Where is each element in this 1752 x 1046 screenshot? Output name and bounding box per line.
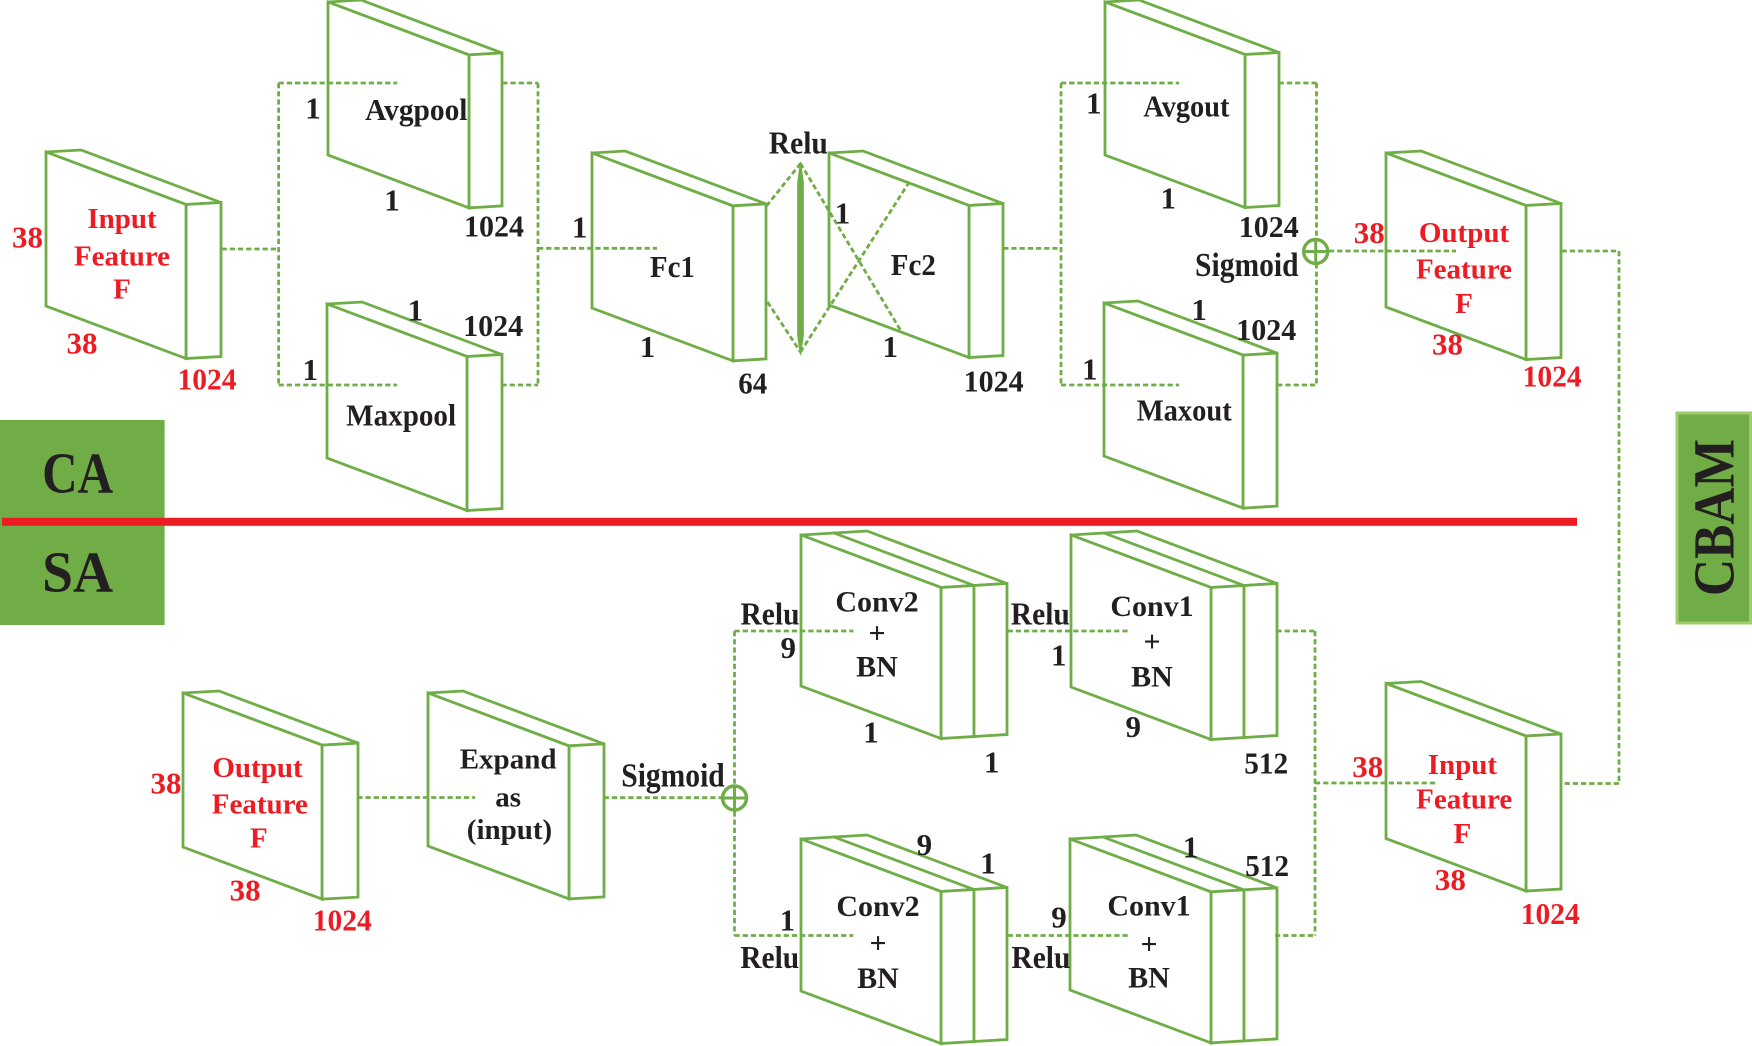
wire left bracket top to Avgpool: [279, 82, 397, 85]
wire Output F to right edge: [1562, 250, 1619, 253]
feature map Conv2+BN (upper path): [801, 531, 1007, 739]
label 9 below upper Conv1: [1126, 709, 1142, 744]
svg-text:+: +: [868, 617, 885, 650]
wire Maxout to sum bracket bottom: [1277, 384, 1316, 387]
svg-text:Feature: Feature: [1416, 784, 1512, 816]
Input Feature F (top) text: [74, 203, 170, 306]
svg-text:1024: 1024: [463, 308, 523, 343]
feature map Output Feature F (bottom): [183, 691, 358, 899]
svg-text:1024: 1024: [178, 361, 237, 396]
SA text: [42, 540, 113, 605]
svg-text:Sigmoid: Sigmoid: [1195, 247, 1299, 284]
label 1 left Avgout: [1086, 86, 1102, 121]
wire Conv1 to right bracket top-row: [1276, 630, 1315, 633]
label 1 below upper Conv2: [863, 714, 879, 749]
svg-text:Feature: Feature: [74, 241, 170, 273]
wire sum to Output Feature F: [1329, 250, 1456, 253]
feature map Conv2+BN (lower path): [801, 835, 1007, 1044]
svg-text:64: 64: [738, 366, 767, 401]
red divider line CA/SA: [2, 518, 1577, 526]
wire out bracket top to Avgout: [1061, 82, 1179, 85]
svg-text:1: 1: [984, 745, 1000, 780]
wire Avgout to sum bracket top: [1279, 82, 1317, 85]
feature map Conv1+BN (lower path): [1070, 835, 1277, 1043]
label 1 top Maxout: [1191, 292, 1207, 327]
wire left bracket vertical (pool): [277, 83, 280, 385]
CBAM box (green): [1677, 413, 1751, 623]
label 9 left lower Conv1: [1051, 899, 1067, 934]
svg-text:CA: CA: [42, 441, 113, 506]
svg-text:512: 512: [1244, 746, 1288, 781]
svg-text:BN: BN: [1128, 962, 1170, 995]
Avgpool text: [365, 92, 468, 127]
wire Maxpool to right bracket bottom: [502, 384, 539, 387]
svg-text:38: 38: [1432, 326, 1463, 361]
svg-text:1: 1: [305, 91, 321, 126]
feature map Conv1+BN (upper path): [1071, 531, 1277, 740]
svg-text:Conv2: Conv2: [835, 586, 918, 619]
svg-text:Relu: Relu: [741, 596, 800, 632]
svg-text:F: F: [250, 823, 268, 855]
svg-text:38: 38: [1435, 862, 1466, 897]
svg-text:1024: 1024: [1521, 896, 1580, 931]
svg-text:1: 1: [1086, 86, 1102, 121]
svg-text:1: 1: [302, 352, 318, 387]
Input Feature F (bottom) text: [1416, 749, 1512, 850]
svg-text:1: 1: [835, 195, 851, 230]
wire Conv2 to Conv1 top-row: [1008, 630, 1130, 633]
svg-text:Avgpool: Avgpool: [365, 92, 468, 127]
wire Expand to sigmoid sum: [604, 796, 721, 799]
svg-text:Expand: Expand: [460, 744, 557, 776]
Conv1+BN lower text: [1107, 890, 1190, 995]
svg-text:1: 1: [640, 329, 656, 364]
svg-text:+: +: [1140, 928, 1157, 961]
label 1 left Maxpool: [302, 352, 318, 387]
svg-text:1024: 1024: [313, 902, 372, 937]
svg-text:9: 9: [781, 630, 797, 665]
SA label box (green): [0, 522, 165, 625]
label 1 left Avgpool: [305, 91, 321, 126]
label 1024 Fc2: [964, 364, 1024, 399]
label 38 below Input F: [67, 326, 98, 361]
svg-text:512: 512: [1245, 848, 1289, 883]
svg-text:Input: Input: [1428, 749, 1498, 781]
wire bottom Output F to Expand: [357, 796, 475, 799]
feature map Maxpool: [327, 302, 502, 511]
svg-text:9: 9: [1051, 899, 1067, 934]
feature map Avgout: [1105, 0, 1279, 208]
wire Conv1 to bracket bottom-row: [1275, 934, 1315, 937]
svg-text:CBAM: CBAM: [1682, 439, 1747, 596]
label 1 below Avgout: [1161, 180, 1177, 215]
label 1 below Fc1: [640, 329, 656, 364]
svg-text:Relu: Relu: [1011, 939, 1070, 975]
svg-text:as: as: [495, 781, 521, 813]
svg-text:BN: BN: [856, 651, 898, 684]
label 1024 Maxpool: [463, 308, 523, 343]
svg-text:1: 1: [572, 210, 588, 245]
Output Feature F (bottom) text: [212, 752, 308, 855]
svg-text:1: 1: [883, 329, 899, 364]
label 1 before Fc1: [572, 210, 588, 245]
label 38 before bottom Input F: [1352, 749, 1383, 784]
svg-text:Input: Input: [87, 203, 157, 235]
wire fan Fc1 to Relu bottom: [768, 302, 801, 352]
Avgout text: [1143, 89, 1230, 124]
svg-text:38: 38: [12, 220, 43, 255]
Fc1 text: [650, 249, 695, 284]
label 512 lower Conv1: [1245, 848, 1289, 883]
wire Fc2 to out bracket: [1003, 247, 1061, 250]
label 1024 Avgout: [1239, 209, 1299, 244]
feature map Expand as (input): [428, 691, 604, 899]
wire into bottom Input F: [1562, 782, 1619, 785]
wire Avgpool to right bracket top: [502, 82, 538, 85]
Maxout text: [1137, 393, 1233, 428]
wire fan Relu top to Fc2 bottom: [801, 164, 902, 332]
svg-text:(input): (input): [467, 814, 552, 846]
feature map Fc1: [592, 151, 766, 361]
wire bottom bracket vertical: [733, 631, 736, 936]
svg-text:SA: SA: [42, 540, 113, 605]
svg-text:BN: BN: [1131, 661, 1173, 694]
svg-text:Feature: Feature: [1416, 254, 1512, 286]
wire right bracket vertical (pool): [537, 83, 540, 385]
wire sum bracket vertical: [1315, 83, 1318, 385]
svg-text:38: 38: [230, 872, 261, 907]
label 1 upper Conv1: [1051, 638, 1067, 673]
sum node channel attention: [1304, 240, 1328, 264]
svg-text:1: 1: [384, 183, 400, 218]
wire Conv2 to Conv1 bottom-row: [1008, 934, 1128, 937]
label 1024 Maxout: [1236, 312, 1296, 347]
CBAM text: [1682, 439, 1747, 596]
label 1 top Fc2: [835, 195, 851, 230]
label 1 top Maxpool: [408, 292, 424, 327]
svg-text:38: 38: [1354, 215, 1385, 250]
label 1024 bottom Output F: [313, 902, 372, 937]
Relu text upper-left: [741, 596, 800, 632]
svg-text:9: 9: [917, 827, 933, 862]
feature map Input Feature F (top): [46, 150, 221, 359]
svg-text:Feature: Feature: [212, 789, 308, 821]
wire long vertical CBAM feedback: [1618, 251, 1621, 784]
feature map Fc2: [829, 151, 1003, 358]
label 1 top lower Conv1: [1183, 830, 1199, 865]
svg-text:38: 38: [1352, 749, 1383, 784]
svg-text:1: 1: [1191, 292, 1207, 327]
wire fan Relu bottom to Fc2 top: [801, 184, 909, 352]
feature map Output Feature F (top): [1386, 151, 1561, 360]
label 1024 Input F: [178, 361, 237, 396]
label 38 below bottom Input F: [1435, 862, 1466, 897]
wire input F to left bracket: [222, 248, 279, 251]
svg-text:+: +: [869, 927, 886, 960]
label 1 below upper Conv2 side: [984, 745, 1000, 780]
label 38 below Output F: [1432, 326, 1463, 361]
feature map Avgpool: [328, 0, 502, 208]
CA label box (green): [0, 420, 165, 522]
svg-text:38: 38: [67, 326, 98, 361]
svg-text:Output: Output: [1419, 217, 1510, 249]
label 9 top lower Conv2: [917, 827, 933, 862]
svg-text:1024: 1024: [464, 209, 524, 244]
svg-text:Relu: Relu: [1011, 596, 1070, 632]
svg-text:1: 1: [1082, 352, 1098, 387]
label 38 before Output F: [1354, 215, 1385, 250]
label 1024 Output F: [1523, 358, 1582, 393]
Fc2 text: [891, 247, 936, 282]
Conv1+BN upper text: [1110, 590, 1193, 694]
svg-text:Fc1: Fc1: [650, 249, 695, 284]
label 1 left Maxout: [1082, 352, 1098, 387]
label 9 upper Conv2: [781, 630, 797, 665]
label 512 upper Conv1: [1244, 746, 1288, 781]
svg-text:1: 1: [1161, 180, 1177, 215]
svg-text:Relu: Relu: [740, 939, 799, 975]
svg-text:F: F: [1455, 288, 1473, 320]
wire bottom right bracket vertical: [1314, 631, 1317, 936]
svg-text:BN: BN: [857, 962, 899, 995]
svg-text:Sigmoid: Sigmoid: [621, 758, 725, 795]
label 1024 Avgpool: [464, 209, 524, 244]
svg-text:1: 1: [408, 292, 424, 327]
svg-text:Conv2: Conv2: [836, 890, 919, 923]
wire out bracket left vertical: [1060, 83, 1063, 385]
label 1 below Avgpool: [384, 183, 400, 218]
wire left bracket bottom to Maxpool: [279, 384, 397, 387]
Relu bottleneck bar: [798, 162, 804, 355]
svg-text:1024: 1024: [1239, 209, 1299, 244]
Sigmoid text (SA): [621, 758, 725, 795]
Relu text lower-mid: [1011, 939, 1070, 975]
Relu text upper-mid: [1011, 596, 1070, 632]
Conv2+BN upper text: [835, 586, 918, 684]
svg-text:F: F: [1454, 818, 1472, 850]
svg-text:+: +: [1143, 626, 1160, 659]
Expand as input text: [460, 744, 557, 847]
svg-text:Fc2: Fc2: [891, 247, 936, 282]
feature map Input Feature F (bottom): [1386, 682, 1561, 892]
svg-text:Conv1: Conv1: [1107, 890, 1190, 923]
wire bracket to Conv2 bottom-row: [735, 934, 854, 937]
svg-text:Maxpool: Maxpool: [346, 398, 456, 433]
wire bracket to Fc1: [538, 247, 657, 250]
svg-text:Relu: Relu: [769, 125, 828, 161]
label 1 top lower Conv2 side: [980, 845, 996, 880]
wire fan Fc1 to Relu top: [767, 164, 801, 207]
svg-text:9: 9: [1126, 709, 1142, 744]
svg-text:Maxout: Maxout: [1137, 393, 1233, 428]
label 38 left of Input F: [12, 220, 43, 255]
label 1 left lower Conv2: [780, 903, 796, 938]
label 38 left bottom Output F: [151, 766, 182, 801]
svg-text:Conv1: Conv1: [1110, 590, 1193, 623]
svg-text:38: 38: [151, 766, 182, 801]
svg-text:1: 1: [863, 714, 879, 749]
svg-text:Avgout: Avgout: [1143, 89, 1230, 124]
label 1024 bottom Input F: [1521, 896, 1580, 931]
wire bracket to Conv2 top-row: [735, 630, 854, 633]
svg-text:F: F: [113, 274, 131, 306]
label 38 below bottom Output F: [230, 872, 261, 907]
wire out bracket bottom to Maxout: [1061, 384, 1179, 387]
svg-text:1: 1: [980, 845, 996, 880]
wire bracket to bottom Input F: [1315, 782, 1438, 785]
svg-text:1: 1: [780, 903, 796, 938]
Sigmoid text (CA): [1195, 247, 1299, 284]
sum node spatial attention: [723, 786, 747, 810]
feature map Maxout: [1104, 301, 1277, 508]
Output Feature F (top) text: [1416, 217, 1512, 320]
label 1 below Fc2: [883, 329, 899, 364]
svg-text:1024: 1024: [1236, 312, 1296, 347]
Conv2+BN lower text: [836, 890, 919, 995]
label 64 below Fc1: [738, 366, 767, 401]
Relu text (CA): [769, 125, 828, 161]
svg-text:1024: 1024: [1523, 358, 1582, 393]
svg-text:1: 1: [1183, 830, 1199, 865]
Relu text lower-left: [740, 939, 799, 975]
Maxpool text: [346, 398, 456, 433]
CA text: [42, 441, 113, 506]
svg-text:1024: 1024: [964, 364, 1024, 399]
svg-text:Output: Output: [212, 752, 303, 784]
svg-text:1: 1: [1051, 638, 1067, 673]
